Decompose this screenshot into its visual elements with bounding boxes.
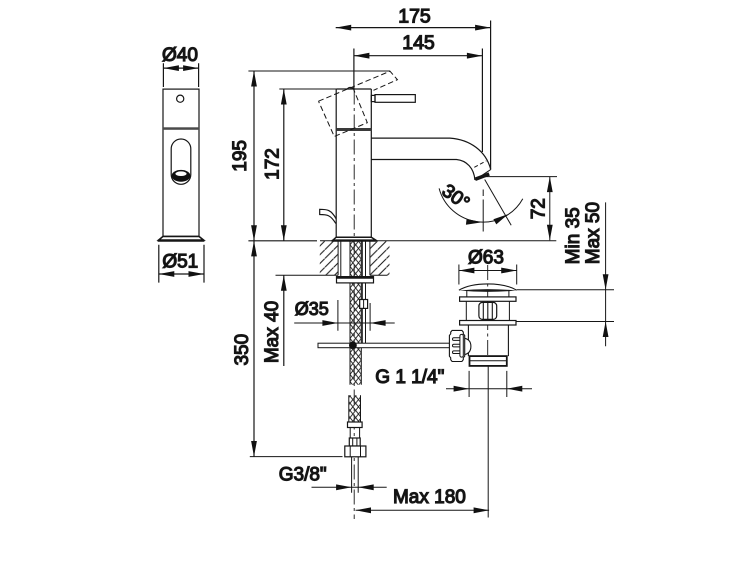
tailpiece — [470, 356, 507, 366]
lower flange — [460, 321, 516, 326]
knob boss — [463, 338, 471, 355]
countertop hole edges — [338, 241, 370, 275]
rod joint dot — [349, 342, 357, 350]
dim 350 line — [253, 241, 255, 457]
mounting flange under counter — [337, 277, 374, 283]
front view body outline — [163, 89, 199, 236]
svg-text:Max 40: Max 40 — [262, 301, 283, 363]
hatch left block — [320, 241, 338, 275]
dim Max180 line and arrows — [356, 509, 490, 511]
braided hose below rod — [349, 348, 362, 422]
dim 145 line and arrows — [354, 55, 483, 57]
Max50 bottom reference line — [516, 321, 614, 323]
dim Ø35 line and arrows — [294, 322, 395, 324]
cap pivot bump — [347, 87, 353, 89]
front view base flare — [159, 236, 204, 240]
horizontal pop-up rod — [318, 343, 454, 348]
svg-text:Max 180: Max 180 — [393, 487, 466, 508]
dim 175 extension right line — [490, 21, 492, 170]
tail extension lines — [469, 371, 507, 397]
reference line top of raised lever (195) — [248, 70, 390, 72]
svg-text:Ø51: Ø51 — [162, 251, 198, 272]
coupling — [349, 438, 360, 446]
svg-text:195: 195 — [230, 140, 251, 172]
tilted 30 deg ray — [485, 180, 512, 226]
dim Ø51 extension lines — [159, 245, 204, 283]
svg-text:72: 72 — [529, 198, 550, 219]
hatch right block — [370, 241, 390, 275]
svg-text:G3/8": G3/8" — [279, 465, 327, 486]
front view joint band — [163, 127, 199, 130]
faucet centerline — [353, 90, 355, 520]
body outline — [336, 89, 371, 238]
knob stem bar — [460, 334, 463, 357]
hidden aerator dashed line — [474, 161, 486, 167]
dashed raised handle outline — [319, 71, 398, 136]
countertop reference line left — [248, 240, 317, 242]
pull rod vertical lines — [362, 241, 365, 343]
countertop top line — [320, 240, 556, 242]
drain body — [468, 325, 508, 356]
arc arrow near vertical — [466, 219, 482, 225]
arc arrow at tilted ray — [493, 214, 508, 224]
dim 350 bottom reference line — [250, 456, 343, 458]
dim 195 line — [253, 71, 255, 241]
upper flange — [460, 297, 516, 301]
dim Ø51 line and arrows — [159, 273, 204, 275]
svg-text:Ø40: Ø40 — [162, 45, 198, 66]
dim G 1 1/4 line and arrows — [446, 388, 532, 390]
dim Max40 line — [283, 275, 285, 366]
dim Ø40 line and arrows — [163, 67, 198, 69]
dim Min35/Max50 line and arrows — [605, 202, 607, 346]
dim G3/8 line and arrows — [312, 486, 387, 488]
outlet vertical dash ray — [482, 190, 484, 232]
Min35 top reference line — [517, 289, 614, 291]
braided hose upper segment — [350, 241, 361, 343]
angle arc — [439, 188, 523, 222]
svg-text:30°: 30° — [438, 180, 474, 214]
front view aerator ellipse — [172, 170, 191, 182]
svg-text:Ø35: Ø35 — [295, 299, 329, 319]
dim Ø35 extension lines — [338, 300, 370, 331]
solid lever handle — [371, 95, 375, 101]
spout end face — [475, 170, 491, 181]
knurled knob outline — [449, 330, 464, 361]
spout bottom edge — [371, 160, 475, 181]
svg-text:145: 145 — [402, 32, 435, 54]
handle gap dark band — [336, 128, 371, 131]
drain centerline — [487, 265, 489, 356]
svg-text:175: 175 — [398, 5, 431, 27]
G3/8 threaded tube — [352, 457, 359, 493]
dim 145 extension lines — [354, 49, 483, 153]
dim Ø40 extension lines — [163, 63, 198, 87]
base flare side view — [333, 237, 376, 240]
svg-text:172: 172 — [263, 148, 284, 180]
pull rod tab on rear of body — [320, 209, 337, 223]
dim Ø63 line and arrows — [459, 270, 517, 272]
72 top reference line — [484, 176, 557, 178]
ribbed drum — [466, 301, 509, 320]
rod clip — [360, 300, 368, 309]
reference line top of body (172) — [279, 88, 336, 90]
dim 175 line and arrows — [336, 27, 491, 29]
spout top edge — [371, 138, 490, 169]
dim Ø63 extension lines — [459, 265, 517, 285]
dim 72 line and arrows — [549, 177, 551, 241]
hose tube — [350, 428, 359, 439]
svg-text:350: 350 — [232, 334, 253, 366]
countertop bottom line — [276, 274, 388, 276]
knob prongs — [453, 338, 461, 341]
front view aerator pin circle — [177, 95, 184, 102]
dim 172 line — [283, 89, 285, 241]
shank tube line in hole — [340, 241, 342, 277]
svg-text:G 1 1/4": G 1 1/4" — [375, 367, 444, 388]
connection nut G3/8 — [345, 446, 366, 457]
front view spout slot — [171, 139, 191, 184]
svg-text:Min 35: Min 35 — [563, 207, 584, 264]
cap neck — [467, 291, 509, 297]
hose end fitting — [348, 422, 363, 428]
svg-text:Max 50: Max 50 — [583, 202, 604, 264]
drain dome cap — [459, 284, 517, 290]
svg-text:Ø63: Ø63 — [468, 247, 504, 268]
